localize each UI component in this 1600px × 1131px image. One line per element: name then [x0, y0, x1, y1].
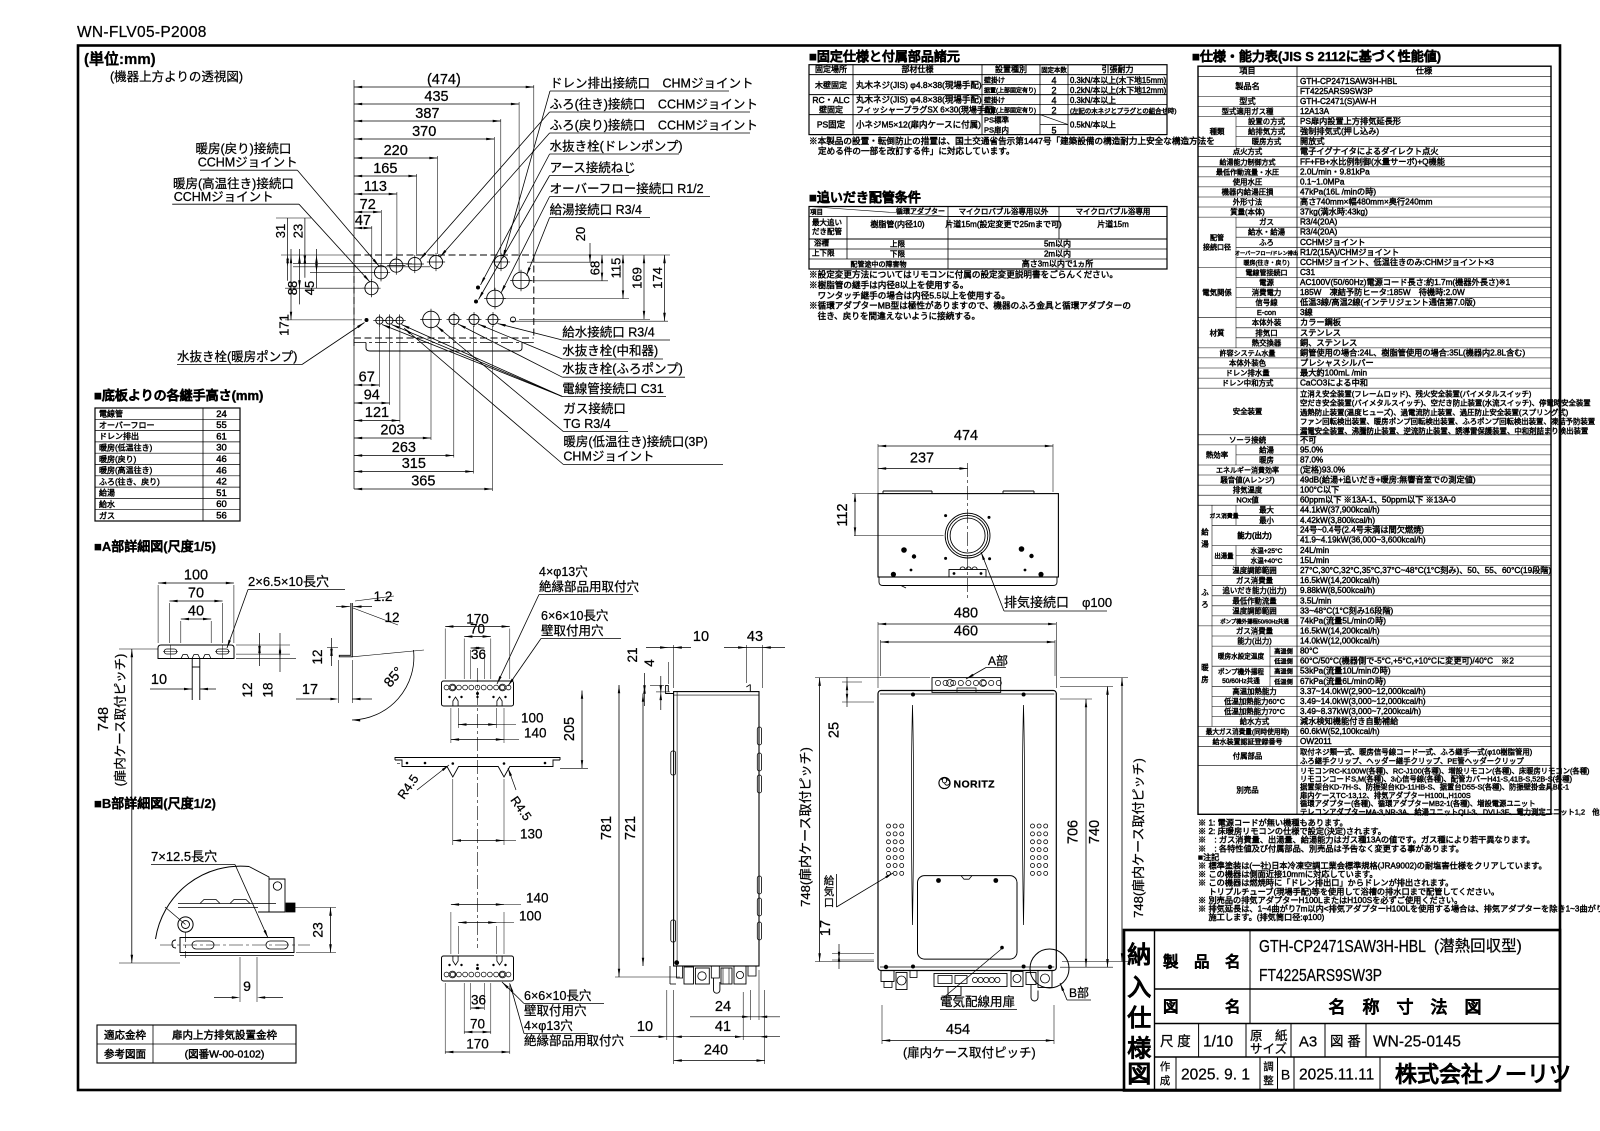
- svg-text:0.3kN/本以上(木下地15mm): 0.3kN/本以上(木下地15mm): [1070, 75, 1167, 85]
- svg-text:(左記の木ネジとプラグとの組合せ時): (左記の木ネジとプラグとの組合せ時): [1070, 106, 1176, 115]
- svg-text:暖房: 暖房: [1259, 455, 1274, 464]
- svg-text:FF+FB+水比例制御(水量サーボ)+Q機能: FF+FB+水比例制御(水量サーボ)+Q機能: [1300, 156, 1445, 166]
- svg-text:丸木ネジ(JIS) φ4.8×38(現場手配): 丸木ネジ(JIS) φ4.8×38(現場手配): [856, 80, 982, 90]
- svg-text:入: 入: [1127, 975, 1151, 1002]
- svg-text:名 称 寸 法 図: 名 称 寸 法 図: [1329, 997, 1482, 1017]
- svg-text:片道15m(設定変更で25mまで可): 片道15m(設定変更で25mまで可): [945, 219, 1062, 229]
- svg-text:※樹脂管の継手は内径8以上を使用する。: ※樹脂管の継手は内径8以上を使用する。: [809, 279, 968, 290]
- svg-text:ふ: ふ: [1201, 588, 1209, 597]
- svg-text:■A部詳細図(尺度1/5): ■A部詳細図(尺度1/5): [94, 539, 216, 554]
- svg-text:95.0%: 95.0%: [1300, 445, 1323, 454]
- svg-text:低温側: 低温側: [1274, 678, 1293, 686]
- svg-text:ガス: ガス: [99, 510, 115, 520]
- svg-text:4.42kW(3,800kcal/h): 4.42kW(3,800kcal/h): [1300, 516, 1375, 525]
- svg-text:ファン回転検出装置、暖房ポンプ回転検出装置、ふろポンプ回転検: ファン回転検出装置、暖房ポンプ回転検出装置、ふろポンプ回転検出装置、凍結予防装置: [1300, 417, 1595, 426]
- svg-text:製品名: 製品名: [1235, 81, 1260, 91]
- svg-text:ふろ(往き、戻り): ふろ(往き、戻り): [99, 476, 160, 486]
- svg-text:片道15m: 片道15m: [1097, 219, 1129, 229]
- svg-text:浴槽: 浴槽: [814, 238, 829, 248]
- svg-text:往き、戻りを間違えないように接続する。: 往き、戻りを間違えないように接続する。: [809, 310, 980, 321]
- svg-text:36: 36: [471, 993, 486, 1008]
- svg-text:2: 2: [1051, 105, 1056, 115]
- svg-text:237: 237: [910, 451, 934, 467]
- svg-text:オーバーフロー接続口 R1/2: オーバーフロー接続口 R1/2: [550, 181, 704, 196]
- svg-text:60: 60: [216, 499, 227, 510]
- svg-text:56: 56: [216, 511, 227, 522]
- svg-text:固定本数: 固定本数: [1041, 65, 1067, 74]
- svg-text:(定格)93.0%: (定格)93.0%: [1300, 465, 1345, 475]
- svg-text:B: B: [1281, 1067, 1290, 1083]
- svg-text:排気接続口 φ100: 排気接続口 φ100: [1004, 595, 1112, 610]
- svg-text:80°C: 80°C: [1300, 647, 1318, 656]
- svg-text:0.1~1.0MPa: 0.1~1.0MPa: [1300, 177, 1345, 186]
- svg-text:12: 12: [240, 682, 255, 697]
- svg-text:ふろ(往き)接続口 CCHMジョイント: ふろ(往き)接続口 CCHMジョイント: [550, 97, 758, 112]
- svg-text:低温加熱能力60°C: 低温加熱能力60°C: [1224, 697, 1286, 706]
- svg-text:14.0kW(12,000kcal/h): 14.0kW(12,000kcal/h): [1300, 637, 1380, 646]
- svg-text:60.6kW(52,100kcal/h): 60.6kW(52,100kcal/h): [1300, 727, 1380, 736]
- svg-text:3線: 3線: [1300, 307, 1313, 317]
- svg-text:2×6.5×10長穴: 2×6.5×10長穴: [248, 574, 329, 589]
- svg-text:※ 1: 電源コードが無い機種もあります。: ※ 1: 電源コードが無い機種もあります。: [1198, 818, 1348, 828]
- svg-text:3.49~14.0kW(3,000~12,000kcal/h: 3.49~14.0kW(3,000~12,000kcal/h): [1300, 697, 1426, 706]
- svg-text:370: 370: [412, 124, 436, 140]
- svg-text:最大: 最大: [1259, 506, 1274, 515]
- svg-text:23: 23: [290, 224, 305, 238]
- svg-text:絶縁部品用取付穴: 絶縁部品用取付穴: [524, 1033, 625, 1048]
- svg-text:温度調節範囲: 温度調節範囲: [1232, 606, 1276, 615]
- svg-text:種類: 種類: [1210, 127, 1225, 136]
- svg-text:給水接続口 R3/4: 給水接続口 R3/4: [562, 325, 654, 340]
- svg-text:CaCO3による中和: CaCO3による中和: [1300, 378, 1368, 388]
- svg-text:■仕様・能力表(JIS S 2112に基づく性能値): ■仕様・能力表(JIS S 2112に基づく性能値): [1192, 49, 1441, 64]
- svg-text:銅管使用の場合:24L、樹脂管使用の場合:35L(機器内2.: 銅管使用の場合:24L、樹脂管使用の場合:35L(機器内2.8L含む): [1300, 347, 1525, 357]
- svg-text:27°C,30°C,32°C,35°C,37°C~48°C(: 27°C,30°C,32°C,35°C,37°C~48°C(1°C刻み)、50、…: [1300, 565, 1551, 575]
- svg-text:24: 24: [715, 999, 731, 1015]
- svg-text:4×φ13穴: 4×φ13穴: [539, 564, 588, 579]
- svg-text:消費電力: 消費電力: [1252, 288, 1282, 297]
- svg-text:454: 454: [946, 1022, 970, 1038]
- svg-text:51: 51: [216, 488, 227, 499]
- svg-text:整: 整: [1263, 1074, 1274, 1087]
- svg-text:30: 30: [216, 443, 227, 454]
- svg-text:付属部品: 付属部品: [1233, 752, 1263, 761]
- svg-text:水温+25°C: 水温+25°C: [1251, 546, 1283, 555]
- svg-text:0.5kN/本以上: 0.5kN/本以上: [1070, 120, 1116, 130]
- svg-text:プレシャスシルバー: プレシャスシルバー: [1300, 359, 1374, 368]
- svg-text:240: 240: [704, 1043, 728, 1059]
- svg-text:46: 46: [216, 465, 227, 476]
- svg-text:開放式: 開放式: [1300, 136, 1325, 146]
- svg-text:(474): (474): [427, 72, 461, 88]
- svg-text:暖房(高温往き)接続口: 暖房(高温往き)接続口: [173, 176, 294, 191]
- svg-text:暖房(低温往き): 暖房(低温往き): [99, 443, 153, 453]
- svg-text:能力(出力): 能力(出力): [1237, 637, 1272, 646]
- svg-text:31: 31: [273, 224, 288, 238]
- svg-text:高さ740mm×幅480mm×奥行240mm: 高さ740mm×幅480mm×奥行240mm: [1300, 197, 1433, 207]
- svg-text:CCHMジョイント: CCHMジョイント: [174, 190, 274, 204]
- svg-text:熱効率: 熱効率: [1206, 450, 1229, 459]
- svg-text:サイズ: サイズ: [1250, 1041, 1287, 1056]
- svg-text:図 番: 図 番: [1330, 1034, 1361, 1049]
- svg-text:電線管: 電線管: [99, 409, 123, 419]
- svg-text:721: 721: [623, 816, 639, 840]
- svg-text:6×6×10長穴: 6×6×10長穴: [541, 608, 609, 623]
- svg-text:60°C/50°C(機器側で-5°C,+5°C,+10°Cに: 60°C/50°C(機器側で-5°C,+5°C,+10°Cに変更可)/40°C …: [1300, 656, 1514, 666]
- svg-text:1.2: 1.2: [374, 589, 393, 604]
- svg-text:エネルギー消費効率: エネルギー消費効率: [1216, 466, 1279, 475]
- svg-text:固定場所: 固定場所: [815, 64, 847, 74]
- svg-text:高温加熱能力: 高温加熱能力: [1232, 687, 1276, 696]
- svg-text:オーバーフロー: オーバーフロー: [99, 421, 154, 430]
- svg-text:GTH-CP2471SAW3H-HBL: GTH-CP2471SAW3H-HBL: [1300, 77, 1398, 86]
- svg-text:16.5kW(14,200kcal/h): 16.5kW(14,200kcal/h): [1300, 627, 1380, 636]
- svg-text:※ 2: 床暖房リモコンの仕様で設定(決定)されます。: ※ 2: 床暖房リモコンの仕様で設定(決定)されます。: [1198, 826, 1386, 836]
- svg-text:電源: 電源: [1259, 278, 1274, 287]
- svg-text:引張耐力: 引張耐力: [1102, 64, 1134, 74]
- svg-text:※ この機器は側面近接10mmに対応しています。: ※ この機器は側面近接10mmに対応しています。: [1198, 869, 1378, 879]
- svg-text:上限: 上限: [890, 239, 905, 248]
- svg-text:過熱防止装置(温度ヒューズ)、過電流防止装置、過圧防止安全装: 過熱防止装置(温度ヒューズ)、過電流防止装置、過圧防止安全装置(スプリング式): [1300, 408, 1568, 417]
- svg-text:成: 成: [1160, 1075, 1171, 1087]
- svg-text:2025. 9. 1: 2025. 9. 1: [1181, 1067, 1250, 1084]
- svg-text:■注記: ■注記: [1198, 852, 1219, 862]
- svg-text:3.37~14.0kW(2,900~12,000kcal/h: 3.37~14.0kW(2,900~12,000kcal/h): [1300, 687, 1426, 696]
- svg-text:OW2011: OW2011: [1300, 737, 1332, 746]
- svg-text:追いだき能力(出力): 追いだき能力(出力): [1222, 586, 1286, 595]
- svg-text:最大約100mL /min: 最大約100mL /min: [1300, 368, 1367, 378]
- svg-text:100: 100: [184, 568, 208, 584]
- svg-text:33~48°C(1°C刻み16段階): 33~48°C(1°C刻み16段階): [1300, 605, 1394, 615]
- svg-text:FT4225ARS9SW3P: FT4225ARS9SW3P: [1259, 965, 1382, 985]
- svg-text:25: 25: [827, 722, 843, 738]
- svg-text:電線管接続口: 電線管接続口: [1246, 268, 1288, 277]
- svg-text:定める件の一部を改訂する件」に対応しています。: 定める件の一部を改訂する件」に対応しています。: [818, 145, 1015, 156]
- svg-text:給水・給湯: 給水・給湯: [1248, 228, 1286, 237]
- svg-text:17: 17: [302, 682, 318, 698]
- svg-text:435: 435: [424, 89, 448, 105]
- svg-text:7×12.5長穴: 7×12.5長穴: [151, 849, 217, 864]
- svg-text:2: 2: [1051, 85, 1056, 95]
- svg-text:電気配線用扉: 電気配線用扉: [940, 994, 1015, 1009]
- svg-text:NORITZ: NORITZ: [954, 778, 996, 790]
- svg-text:樹脂管(内径10): 樹脂管(内径10): [870, 219, 925, 229]
- svg-text:使用水圧: 使用水圧: [1233, 177, 1263, 186]
- svg-text:仕様: 仕様: [1416, 66, 1432, 76]
- svg-text:70: 70: [470, 1017, 485, 1032]
- svg-text:WN-25-0145: WN-25-0145: [1373, 1034, 1461, 1051]
- svg-text:電線管接続口 C31: 電線管接続口 C31: [562, 381, 663, 396]
- svg-text:配管: 配管: [1210, 233, 1224, 242]
- svg-text:マイクロバブル浴専用以外: マイクロバブル浴専用以外: [959, 206, 1049, 216]
- svg-text:壁掛け: 壁掛け: [984, 95, 1005, 104]
- svg-text:GTH-C2471(S)AW-H: GTH-C2471(S)AW-H: [1300, 97, 1377, 106]
- svg-text:100°C以下: 100°C以下: [1300, 486, 1339, 495]
- svg-text:100: 100: [519, 909, 542, 924]
- svg-text:ワンタッチ継手の場合は内径5.5以上を使用する。: ワンタッチ継手の場合は内径5.5以上を使用する。: [809, 289, 1010, 300]
- svg-text:※ 別売品の排気アダプターH100LまたはH100Sを必ずご: ※ 別売品の排気アダプターH100LまたはH100Sを必ずご使用ください。: [1198, 895, 1462, 905]
- svg-text:112: 112: [835, 503, 851, 526]
- svg-text:TG R3/4: TG R3/4: [563, 417, 610, 431]
- svg-text:据置(上部固定有り): 据置(上部固定有り): [984, 106, 1036, 114]
- svg-text:壁固定: 壁固定: [819, 105, 843, 115]
- svg-text:※設定変更方法についてはリモコンに付属の設定変更説明書をごら: ※設定変更方法についてはリモコンに付属の設定変更説明書をごらんください。: [809, 269, 1118, 280]
- svg-text:接続口径: 接続口径: [1203, 243, 1231, 252]
- svg-text:暖房方式: 暖房方式: [1252, 137, 1282, 146]
- svg-text:上下限: 上下限: [812, 249, 835, 258]
- svg-text:水抜き栓(暖房ポンプ): 水抜き栓(暖房ポンプ): [177, 349, 297, 364]
- svg-text:94: 94: [364, 388, 380, 404]
- svg-text:トリプルチューブ(現場手配)等を使用して浴槽の排水口まで配管: トリプルチューブ(現場手配)等を使用して浴槽の排水口まで配管してください。: [1198, 886, 1499, 896]
- svg-text:706: 706: [1066, 820, 1082, 844]
- svg-text:GTH-CP2471SAW3H-HBL: GTH-CP2471SAW3H-HBL: [1259, 936, 1426, 956]
- svg-text:ポンプ機外揚程50/60Hz共通: ポンプ機外揚程50/60Hz共通: [1220, 617, 1289, 625]
- svg-text:最大追い: 最大追い: [812, 217, 842, 227]
- svg-text:12: 12: [384, 610, 399, 625]
- svg-text:NOx値: NOx値: [1236, 496, 1259, 505]
- svg-text:3.5L/min: 3.5L/min: [1300, 596, 1332, 605]
- svg-text:170: 170: [466, 1037, 489, 1052]
- svg-text:※循環アダプターMB型は極性がありますので、機器のふろ金具と: ※循環アダプターMB型は極性がありますので、機器のふろ金具と循環アダプターの: [809, 300, 1131, 311]
- svg-text:暖房(低温往き)接続口(3P): 暖房(低温往き)接続口(3P): [563, 434, 707, 449]
- svg-text:暖房水設定温度: 暖房水設定温度: [1218, 652, 1265, 661]
- svg-text:オーバーフロー/ドレン排出: オーバーフロー/ドレン排出: [1235, 249, 1298, 257]
- svg-text:据置(上部固定有り): 据置(上部固定有り): [984, 86, 1036, 94]
- svg-text:設置の方式: 設置の方式: [1248, 117, 1286, 126]
- svg-text:最低作動流量・水圧: 最低作動流量・水圧: [1216, 167, 1279, 176]
- svg-text:6×6×10長穴: 6×6×10長穴: [524, 988, 592, 1003]
- svg-text:(扉内ケース取付ピッチ): (扉内ケース取付ピッチ): [114, 654, 128, 787]
- svg-text:37kg(満水時:43kg): 37kg(満水時:43kg): [1300, 207, 1368, 217]
- svg-text:株式会社ノーリツ: 株式会社ノーリツ: [1395, 1062, 1571, 1087]
- svg-text:44.1kW(37,900kcal/h): 44.1kW(37,900kcal/h): [1300, 506, 1380, 515]
- svg-text:ふろ(戻り)接続口 CCHMジョイント: ふろ(戻り)接続口 CCHMジョイント: [550, 118, 758, 133]
- svg-text:水温+40°C: 水温+40°C: [1251, 556, 1283, 565]
- svg-text:排気温度: 排気温度: [1233, 486, 1263, 495]
- svg-text:給湯: 給湯: [1259, 445, 1274, 454]
- svg-text:46: 46: [216, 454, 227, 465]
- svg-text:給: 給: [1201, 527, 1209, 536]
- svg-text:16.5kW(14,200kcal/h): 16.5kW(14,200kcal/h): [1300, 576, 1380, 585]
- svg-text:ガス消費量: ガス消費量: [1210, 512, 1239, 520]
- svg-text:安全装置: 安全装置: [1233, 407, 1263, 416]
- svg-text:PS扉内: PS扉内: [984, 124, 1009, 134]
- svg-text:湯: 湯: [1201, 539, 1209, 548]
- svg-text:5m以内: 5m以内: [1044, 238, 1071, 248]
- svg-text:ソーラ接続: ソーラ接続: [1229, 435, 1267, 444]
- svg-text:木壁固定: 木壁固定: [815, 80, 847, 90]
- svg-text:FT4225ARS9SW3P: FT4225ARS9SW3P: [1300, 87, 1373, 96]
- svg-text:給水装置認証登録番号: 給水装置認証登録番号: [1213, 737, 1283, 746]
- svg-text:3.49~8.37kW(3,000~7,200kcal/h): 3.49~8.37kW(3,000~7,200kcal/h): [1300, 707, 1421, 716]
- svg-text:140: 140: [524, 726, 547, 741]
- svg-text:74kPa(流量5L/minの時): 74kPa(流量5L/minの時): [1300, 615, 1386, 625]
- svg-text:丸木ネジ(JIS) φ4.8×38(現場手配): 丸木ネジ(JIS) φ4.8×38(現場手配): [856, 94, 982, 104]
- svg-text:ろ: ろ: [1201, 600, 1208, 609]
- svg-text:(単位:mm): (単位:mm): [84, 50, 156, 68]
- svg-text:315: 315: [402, 456, 426, 472]
- svg-text:CHMジョイント: CHMジョイント: [563, 450, 654, 464]
- svg-text:房: 房: [1201, 675, 1208, 684]
- svg-text:2025.11.11: 2025.11.11: [1299, 1067, 1374, 1084]
- svg-text:最小: 最小: [1259, 516, 1274, 525]
- svg-text:仕: 仕: [1126, 1004, 1151, 1032]
- svg-text:740: 740: [1087, 820, 1103, 844]
- svg-text:23: 23: [310, 922, 326, 938]
- svg-text:水抜き栓(ドレンポンプ): 水抜き栓(ドレンポンプ): [550, 139, 683, 154]
- svg-text:474: 474: [954, 428, 978, 444]
- svg-text:9: 9: [243, 978, 251, 994]
- svg-text:漏電安全装置、沸騰防止装置、逆流防止装置、誘導雷保護装置、中: 漏電安全装置、沸騰防止装置、逆流防止装置、誘導雷保護装置、中和剤詰まり検出装置: [1300, 426, 1588, 435]
- svg-text:高温側: 高温側: [1274, 668, 1293, 676]
- svg-text:61: 61: [216, 431, 227, 442]
- svg-text:給湯: 給湯: [99, 488, 115, 498]
- svg-text:24号~0.4号(2.4号未満は間欠燃焼): 24号~0.4号(2.4号未満は間欠燃焼): [1300, 525, 1424, 535]
- svg-text:適応金枠: 適応金枠: [104, 1029, 146, 1042]
- svg-text:47kPa(16L /minの時): 47kPa(16L /minの時): [1300, 188, 1376, 197]
- svg-text:(機器上方よりの透視図): (機器上方よりの透視図): [110, 69, 243, 84]
- svg-text:RC・ALC: RC・ALC: [812, 95, 849, 105]
- svg-text:機器内給湯圧損: 機器内給湯圧損: [1222, 188, 1274, 197]
- svg-text:製 品 名: 製 品 名: [1162, 952, 1241, 971]
- svg-text:PS標準: PS標準: [984, 114, 1010, 124]
- svg-text:扉内上方排気設置金枠: 扉内上方排気設置金枠: [172, 1029, 277, 1042]
- svg-text:納: 納: [1127, 941, 1151, 969]
- svg-text:40: 40: [188, 604, 204, 620]
- svg-text:※ この機器は燃焼時に「ドレン排出口」からドレンが排出されま: ※ この機器は燃焼時に「ドレン排出口」からドレンが排出されます。: [1198, 878, 1453, 888]
- svg-text:PS扉内設置上方排気延長形: PS扉内設置上方排気延長形: [1300, 116, 1401, 126]
- svg-text:別売品: 別売品: [1236, 785, 1258, 794]
- svg-text:365: 365: [411, 474, 435, 490]
- svg-text:2m以内: 2m以内: [1044, 248, 1071, 258]
- svg-text:壁掛け: 壁掛け: [984, 75, 1005, 84]
- svg-text:ステンレス: ステンレス: [1300, 328, 1341, 337]
- svg-text:暖房(高温往き): 暖房(高温往き): [99, 465, 153, 475]
- svg-text:67kPa(流量6L/minの時): 67kPa(流量6L/minの時): [1300, 676, 1386, 686]
- svg-text:小ネジM5×12(扉内ケースに付属): 小ネジM5×12(扉内ケースに付属): [856, 120, 981, 130]
- svg-text:立消え安全装置(フレームロッド)、残火安全装置(バイメタルス: 立消え安全装置(フレームロッド)、残火安全装置(バイメタルスイッチ): [1300, 389, 1531, 398]
- svg-text:55: 55: [216, 420, 227, 431]
- svg-text:CCHMジョイント: CCHMジョイント: [198, 156, 298, 170]
- svg-text:68: 68: [588, 261, 603, 275]
- svg-text:4×φ13穴: 4×φ13穴: [524, 1018, 573, 1033]
- svg-text:(図番W-00-0102): (図番W-00-0102): [185, 1049, 265, 1061]
- svg-text:暖: 暖: [1201, 663, 1209, 672]
- svg-text:12A13A: 12A13A: [1300, 107, 1330, 116]
- svg-text:最大ガス消費量(同時使用時): 最大ガス消費量(同時使用時): [1206, 727, 1290, 736]
- svg-text:CCHMジョイント: CCHMジョイント: [1300, 238, 1366, 247]
- svg-text:480: 480: [954, 606, 978, 622]
- svg-text:9.88kW(8,500kcal/h): 9.88kW(8,500kcal/h): [1300, 586, 1375, 595]
- svg-text:263: 263: [392, 440, 416, 456]
- svg-text:AC100V(50/60Hz)電源コード長さ:約1.7m(機: AC100V(50/60Hz)電源コード長さ:約1.7m(機器外長さ)※1: [1300, 277, 1511, 287]
- svg-text:4: 4: [642, 659, 657, 667]
- svg-text:口: 口: [824, 897, 835, 909]
- svg-text:67: 67: [359, 370, 375, 386]
- svg-text:17: 17: [818, 920, 834, 936]
- svg-text:カラー鋼板: カラー鋼板: [1300, 317, 1341, 327]
- svg-text:※ 標準塗装は(一社)日本冷凍空調工業会標準規格(JRA90: ※ 標準塗装は(一社)日本冷凍空調工業会標準規格(JRA9002)の耐塩害仕様を…: [1198, 861, 1547, 871]
- svg-text:171: 171: [277, 314, 292, 336]
- svg-text:様: 様: [1127, 1035, 1152, 1063]
- svg-text:205: 205: [562, 717, 578, 741]
- svg-text:10: 10: [693, 629, 709, 645]
- svg-text:能力(出力): 能力(出力): [1237, 531, 1272, 540]
- svg-text:53kPa(流量10L/minの時): 53kPa(流量10L/minの時): [1300, 666, 1391, 676]
- svg-text:10: 10: [637, 1019, 653, 1035]
- svg-text:高さ3m以内で1ヵ所: 高さ3m以内で1ヵ所: [1022, 258, 1094, 268]
- svg-text:■固定仕様と付属部品諸元: ■固定仕様と付属部品諸元: [809, 49, 960, 64]
- svg-text:低温3線/高温2線(インテリジェント通信第7.0版): 低温3線/高温2線(インテリジェント通信第7.0版): [1300, 297, 1476, 307]
- svg-text:ガス: ガス: [1259, 218, 1274, 227]
- svg-text:87.0%: 87.0%: [1300, 455, 1323, 464]
- svg-text:41: 41: [715, 1019, 731, 1035]
- svg-text:12: 12: [310, 649, 325, 664]
- svg-text:140: 140: [526, 891, 549, 906]
- svg-text:取付ネジ類一式、暖房信号線コード一式、ふろ継手一式(φ10樹: 取付ネジ類一式、暖房信号線コード一式、ふろ継手一式(φ10樹脂管用): [1300, 748, 1532, 757]
- svg-text:4: 4: [1051, 75, 1056, 85]
- svg-text:ポンプ機外揚程: ポンプ機外揚程: [1218, 667, 1264, 676]
- svg-text:信号線: 信号線: [1255, 298, 1278, 307]
- svg-text:42: 42: [216, 477, 227, 488]
- svg-text:空だき安全装置(バイメタルスイッチ)、空だき防止装置(水流ス: 空だき安全装置(バイメタルスイッチ)、空だき防止装置(水流スイッチ)、停電時安全…: [1300, 399, 1591, 408]
- svg-text:循環アダプター: 循環アダプター: [896, 207, 945, 216]
- svg-text:169: 169: [630, 267, 645, 289]
- svg-text:給水: 給水: [99, 499, 115, 509]
- svg-text:174: 174: [650, 267, 665, 289]
- svg-text:低温側: 低温側: [1274, 658, 1293, 666]
- svg-text:■追いだき配管条件: ■追いだき配管条件: [809, 190, 921, 205]
- svg-text:24L/min: 24L/min: [1300, 546, 1330, 555]
- svg-text:不可: 不可: [1300, 435, 1316, 444]
- svg-text:※ 排気延長は、1~4曲がり7m以内<排気アダプターH100: ※ 排気延長は、1~4曲がり7m以内<排気アダプターH100Lを使用する場合は、…: [1198, 904, 1600, 914]
- svg-text:尺 度: 尺 度: [1160, 1034, 1191, 1049]
- svg-text:設置種別: 設置種別: [995, 64, 1027, 74]
- svg-text:ドレン排出接続口 CHMジョイント: ドレン排出接続口 CHMジョイント: [550, 76, 753, 91]
- svg-text:36: 36: [471, 647, 486, 662]
- svg-text:給湯接続口 R3/4: 給湯接続口 R3/4: [550, 202, 642, 217]
- svg-text:A3: A3: [1299, 1034, 1317, 1051]
- svg-text:■B部詳細図(尺度1/2): ■B部詳細図(尺度1/2): [94, 796, 216, 811]
- svg-text:材質: 材質: [1210, 328, 1225, 337]
- svg-text:ドレン排水量: ドレン排水量: [1225, 369, 1270, 378]
- svg-text:銅、ステンレス: 銅、ステンレス: [1300, 337, 1357, 347]
- svg-text:電子イグナイタによるダイレクト点火: 電子イグナイタによるダイレクト点火: [1300, 146, 1438, 156]
- svg-text:WN-FLV05-P2008: WN-FLV05-P2008: [77, 24, 207, 41]
- svg-text:4: 4: [1051, 95, 1056, 105]
- svg-text:暖房(往き・戻り): 暖房(往き・戻り): [1244, 259, 1290, 267]
- svg-text:R1/2(15A)/CHMジョイント: R1/2(15A)/CHMジョイント: [1300, 248, 1399, 257]
- svg-text:15L/min: 15L/min: [1300, 556, 1330, 565]
- svg-text:※本製品の設置・転倒防止の措置は、国土交通省告示第1447号: ※本製品の設置・転倒防止の措置は、国土交通省告示第1447号「建築設備の構造耐力…: [809, 135, 1215, 146]
- svg-text:41.9~4.19kW(36,000~3,600kcal/h: 41.9~4.19kW(36,000~3,600kcal/h): [1300, 536, 1426, 545]
- svg-text:1/10: 1/10: [1203, 1034, 1234, 1051]
- svg-text:10: 10: [151, 672, 167, 688]
- svg-text:図 名: 図 名: [1163, 997, 1241, 1016]
- svg-text:(潜熱回収型): (潜熱回収型): [1434, 937, 1522, 955]
- svg-text:E-con: E-con: [1257, 308, 1276, 317]
- svg-text:点火方式: 点火方式: [1233, 147, 1263, 156]
- svg-text:115: 115: [609, 258, 624, 279]
- svg-text:ふろ継手クリップ、ヘッダー継手クリップ、PE管ヘッダークリッ: ふろ継手クリップ、ヘッダー継手クリップ、PE管ヘッダークリップ: [1300, 757, 1524, 766]
- svg-text:A部: A部: [988, 653, 1008, 668]
- svg-text:部材仕様: 部材仕様: [902, 64, 934, 74]
- svg-text:配管途中の障害物: 配管途中の障害物: [851, 259, 907, 268]
- svg-text:壁取付用穴: 壁取付用穴: [524, 1003, 587, 1018]
- svg-text:CCHMジョイント、低温往きのみ:CHMジョイント×3: CCHMジョイント、低温往きのみ:CHMジョイント×3: [1300, 257, 1494, 267]
- svg-text:70: 70: [470, 622, 485, 637]
- svg-text:減水検知機能付き自動補給: 減水検知機能付き自動補給: [1300, 716, 1399, 726]
